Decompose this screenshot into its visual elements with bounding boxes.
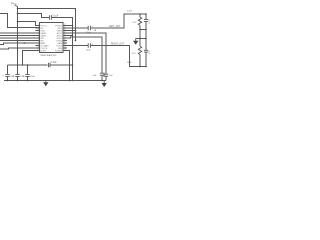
svg-text:LEFT_OUT: LEFT_OUT xyxy=(109,26,121,28)
pin numbers left column xyxy=(37,24,39,51)
wire rail ch1 bottom xyxy=(140,29,146,31)
wire ground rail bottom xyxy=(4,80,106,82)
svg-text:PVcc: PVcc xyxy=(11,3,17,5)
node rail2t-C15 junction xyxy=(145,38,147,40)
node gnd capA junction xyxy=(101,80,103,82)
wire ch1-ch2 link left xyxy=(139,30,141,39)
wire LEFT_OUT from pin row2 xyxy=(67,27,88,29)
capacitor C8 (x=27.5) to ground rail xyxy=(27,65,29,81)
wire B top (y=13.5 jog to y=17.5) xyxy=(18,14,49,18)
wire rail ch2 top xyxy=(136,38,146,40)
IC U1 box xyxy=(40,23,64,53)
node rail2b-R2 junction xyxy=(139,66,141,68)
node gnd C6 junction xyxy=(7,80,9,82)
wire W2 to pin row48 xyxy=(0,48,40,49)
node rail2t-R2 junction xyxy=(139,38,141,40)
capacitor C12 plates xyxy=(100,73,105,75)
wire RIGHT_OUT continue to corner xyxy=(91,46,146,67)
pin names left inside xyxy=(40,25,49,52)
node v72-pin25.5 junction xyxy=(72,25,74,27)
node W1 junction xyxy=(24,42,26,44)
wire input row3 xyxy=(0,32,40,34)
wire pin row1 right to v72 xyxy=(67,25,73,27)
wire bottom-center A from pin row4 xyxy=(67,33,106,74)
capacitor C10 plates (left out series) xyxy=(88,26,90,31)
ground symbol right (triangle) xyxy=(135,39,137,41)
wire bus tap to pin row1 xyxy=(18,22,40,26)
capacitor C15 xyxy=(145,39,147,51)
node bus-wireB junction xyxy=(17,13,19,15)
capacitor C13 plates xyxy=(103,74,108,76)
svg-text:12: 12 xyxy=(64,49,66,51)
node v72-rail65 junction xyxy=(72,64,74,66)
ground symbol left (triangle) xyxy=(45,81,47,83)
wire ch1-ch2 link right xyxy=(145,30,147,39)
node rail1-R1 junction xyxy=(139,13,141,15)
pin names right inside xyxy=(55,25,63,52)
wire decoupling rail y=65 xyxy=(8,64,73,66)
svg-text:10uF: 10uF xyxy=(86,49,91,51)
wire PVcc bus vertical xyxy=(17,7,19,66)
svg-text:10uF: 10uF xyxy=(127,11,132,13)
node wireA-pin30.5 junction xyxy=(75,30,77,32)
capacitor C6 (x=7.5) to ground rail xyxy=(7,65,9,81)
wire input row4 xyxy=(0,35,40,37)
node wireA-pin40.5 junction xyxy=(75,40,77,42)
pin numbers right column xyxy=(64,24,66,51)
wire input row5 xyxy=(0,37,40,39)
svg-text:11: 11 xyxy=(37,49,39,51)
svg-text:0.1uF: 0.1uF xyxy=(52,15,58,17)
node bus-row1 junction xyxy=(17,21,19,23)
node bus-wireA junction xyxy=(17,8,19,10)
capacitor C14 xyxy=(145,14,147,19)
node v72-gndrail junction xyxy=(72,80,74,82)
wire left edge to pin row2 xyxy=(0,14,40,28)
svg-text:10uF: 10uF xyxy=(30,76,35,78)
capacitor C11 plates (right out series) xyxy=(88,43,90,48)
resistor R2 4.7k xyxy=(139,39,141,47)
resistor R1 4.7k xyxy=(139,14,141,17)
wire bottom-center B from pin row6 xyxy=(67,37,102,73)
capacitor C1 0.1uF plates xyxy=(50,15,52,19)
svg-text:MUTE: MUTE xyxy=(40,50,46,52)
node bus-W2 junction xyxy=(17,47,19,49)
wire pin row3 right to v75 xyxy=(67,30,76,32)
node probe mark xyxy=(95,30,96,31)
node gnd C8 junction xyxy=(27,80,29,82)
node rail1-C14 junction xyxy=(145,13,147,15)
node gnd C7 junction xyxy=(17,80,19,82)
capacitor C7 (x=17.5) to ground rail xyxy=(17,65,19,81)
svg-text:0.1uF: 0.1uF xyxy=(51,62,57,64)
node rail1b-C14 junction xyxy=(145,29,147,31)
wire B after C1 xyxy=(52,18,72,81)
wire RIGHT_OUT from pin row9 xyxy=(67,45,88,47)
ground symbol center (triangle) xyxy=(103,81,105,84)
node rail2b-C15 junction xyxy=(145,66,147,68)
capacitor C5 1uF plates (series on rail) xyxy=(49,63,51,67)
svg-text:TPA6130A2PWP: TPA6130A2PWP xyxy=(40,54,57,57)
svg-text:16: 16 xyxy=(148,53,150,55)
node C8 top junction xyxy=(27,64,29,66)
pin stubs right xyxy=(63,26,67,51)
node bus-rail junction xyxy=(17,64,19,66)
wire pin row11 right down to gnd rail xyxy=(67,51,70,81)
wire pin row5 right to v72 xyxy=(67,35,73,37)
node bus-row2 junction xyxy=(17,27,19,29)
node v72-pin35 junction xyxy=(72,35,74,37)
wire input row6 xyxy=(0,40,40,42)
node rail1b-R1 junction xyxy=(139,29,141,31)
wire LEFT_OUT continue to corner xyxy=(91,14,146,28)
node riser-rail junction xyxy=(22,64,24,66)
wire W1 to pin row43 xyxy=(0,43,40,45)
svg-text:PGNDR: PGNDR xyxy=(55,50,63,52)
svg-text:RIGHT_OUT: RIGHT_OUT xyxy=(111,43,125,45)
wire rail riser to pin row50.5 xyxy=(23,51,40,66)
pin stubs left xyxy=(36,26,40,51)
wire A top (y=8.5 to right vertical) xyxy=(18,9,76,41)
svg-text:10uF: 10uF xyxy=(127,62,132,64)
wire net-label hook xyxy=(15,5,18,7)
node gnd v69 junction xyxy=(69,80,71,82)
svg-text:16: 16 xyxy=(148,23,150,25)
